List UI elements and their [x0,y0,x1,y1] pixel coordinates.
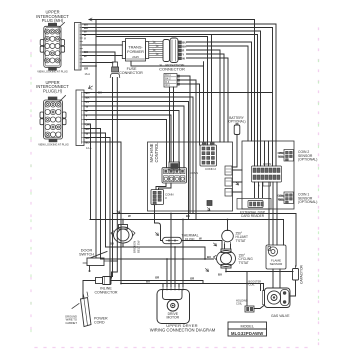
wire J2 pin11 drop [84,138,110,284]
svg-text:CORD: CORD [94,321,105,325]
broken belt switch (round) [111,225,135,244]
svg-text:T'STAT: T'STAT [236,239,246,243]
svg-text:RED: RED [278,197,284,201]
label 9-position connector [159,62,185,71]
wire flame sensor to gas valve a [272,269,274,288]
connector P2 pins [45,102,61,137]
label upper interconnect plug (MH) [36,10,69,23]
scan artifact dotted row bottom [35,347,310,349]
thermal fuse label [181,234,198,242]
model text [231,325,263,336]
wire 9-pos pin4 right [187,54,225,142]
pointer arrow to plug LH [60,96,66,102]
scan artifact dotted column right [318,28,320,345]
wire motor feed riser a [166,259,168,284]
svg-text:VIEW LOOKING AT PLUG: VIEW LOOKING AT PLUG [37,70,68,74]
svg-text:V: V [86,114,88,118]
svg-text:COIL: COIL [249,283,256,287]
label coin 1 sensor [298,193,317,205]
holding coil label [236,299,248,306]
test point arrow near hi-limit [214,243,217,246]
svg-text:MODEL: MODEL [240,325,254,329]
drive motor pins [163,287,183,291]
svg-text:CABINET: CABINET [65,321,77,325]
svg-text:SWITCH: SWITCH [79,253,94,257]
external display card reader block [237,199,271,210]
fuse connector label [119,67,143,75]
svg-text:T'STAT: T'STAT [239,261,249,265]
svg-text:BR: BR [86,127,90,131]
svg-text:Y: Y [86,118,88,122]
coin 1 wire labels [277,193,283,201]
transformer T1 [122,39,148,62]
wire rail y247 [106,247,206,259]
wire CONN2 feed a [203,62,205,145]
svg-text:R: R [86,109,88,113]
arrow at bus J2 top [89,86,93,90]
coin strip pins [253,168,280,180]
svg-text:GY: GY [86,100,90,104]
cycling thermostat label [239,254,254,265]
wire bus J1 to transformer primary lower [83,55,123,57]
wire J2 pin7 to CONN1 [84,120,167,168]
svg-text:1: 1 [190,175,192,179]
wire flame sensor feeds below box [269,209,277,245]
svg-text:12-A: 12-A [86,146,92,150]
connector U2 pin squares [179,41,182,60]
wire gas valve feeds [261,284,264,291]
svg-text:WIRING CONNECTION DIAGRAM: WIRING CONNECTION DIAGRAM [150,328,216,333]
wire bus J1 to fuse connector top [83,52,116,62]
booster coil label [249,280,262,287]
svg-text:BU: BU [218,273,222,277]
coin strip sub-block [263,182,271,186]
connector coin 2 [284,150,294,162]
capacitor label (vertical) [300,264,304,284]
svg-text:GRN: GRN [277,193,283,197]
wire flame sensor to gas valve b [279,269,281,288]
connector CONN2 on machine control (top right) [200,142,217,166]
legend block text [165,74,171,87]
svg-text:BU: BU [86,141,90,145]
wire belt switch top [122,220,124,225]
wire long vertical to door switch [95,20,97,259]
wire legend right pin c [180,84,200,145]
wire top horizontal to CONN2 [96,37,208,146]
ground wire note [65,315,77,325]
svg-text:W-4: W-4 [165,84,170,87]
connector CONN3 on machine control (bottom left) [151,190,164,205]
svg-text:BELT SW: BELT SW [136,240,140,253]
cable bundle transformer to 9-position connector [149,41,163,58]
wire bus J1 pin1 to coin box top [83,24,277,141]
CONN3 pin squares [153,191,161,205]
battery B1 body [234,124,240,135]
wire J2 pin5 to CONN1 [84,111,179,168]
svg-text:CONTROL: CONTROL [154,142,159,163]
wire long horizontal rail y219.5 [90,219,284,221]
flame sensor box [266,245,286,269]
svg-text:BU: BU [146,280,150,284]
svg-text:COIL: COIL [236,302,243,306]
wire CONN3 drop to thermal fuse [155,205,163,241]
power cord label [94,317,108,325]
svg-text:16-A: 16-A [85,72,91,76]
scan artifact green dots right [318,60,320,340]
pointer arrow to plug MH [59,23,65,29]
svg-text:BK: BK [86,136,90,140]
wire coin1 stubs [279,196,284,200]
wire cycling bottom drop [226,268,293,272]
connector coin 1 [284,192,294,204]
inline connector [96,277,112,285]
svg-text:BU: BU [207,255,211,259]
wire J2 pin9 long left drop [84,129,101,260]
wire J2 pin3 through board [84,102,189,220]
wire 9-pos pin1 right [187,42,252,141]
cycling thermostat [214,249,236,268]
capacitor C1 [293,266,299,280]
wire rail y213.5 [113,213,297,215]
svg-text:GAS VALVE: GAS VALVE [271,314,290,318]
wire labels at U2 [182,41,186,61]
broken belt switch vertical label [133,240,141,253]
svg-text:(OPTIONAL): (OPTIONAL) [298,158,317,162]
svg-text:CONN 2: CONN 2 [205,167,216,171]
wire fuse connector down leg B [112,78,118,279]
label machine control [149,142,159,163]
connector P1 pins [45,29,60,63]
svg-text:W: W [182,57,185,61]
svg-text:CAPACITOR: CAPACITOR [300,264,304,284]
title upper dryer [150,323,216,333]
svg-text:CONNECTOR: CONNECTOR [94,290,117,294]
svg-text:BU: BU [110,242,114,246]
svg-text:OR: OR [86,123,90,127]
wire fuse connector down leg A [111,78,113,277]
power cord [81,292,92,327]
wire legend pin b to CONN1 header [173,87,175,162]
wire legend right pin to board [180,76,191,214]
svg-text:W: W [86,132,89,136]
connector P2 upper interconnect plug LH [40,97,66,143]
wire legend pin a to CONN1 header [169,87,171,162]
connector J1 upper harness header (top bus) [75,23,83,71]
thermal fuse TF1 [163,237,182,243]
wire terminal to valve [254,305,265,309]
wire drop to gas valve coils [246,272,248,307]
label upper interconnect plug (LH) [36,80,69,93]
wire labels at J2 [86,91,90,145]
wire inline connector left loop to power cord [83,281,96,299]
svg-text:FORMER: FORMER [127,49,144,54]
svg-text:PLUG (MH): PLUG (MH) [42,18,64,23]
svg-text:BK: BK [86,96,90,100]
wire motor pin risers [163,284,183,287]
wire motor feed riser c [174,247,176,284]
wire coin2 stubs [279,153,284,157]
svg-text:BU: BU [98,91,102,95]
svg-text:MOTOR: MOTOR [167,316,180,320]
ground arrow [72,304,79,309]
hi-limit thermostat [222,230,234,244]
wire bus J1 pin3 to coin box top [83,31,261,141]
wire J2 pin8 drop to rail [84,124,91,220]
coin strip label [258,162,271,188]
svg-text:CONNECTOR: CONNECTOR [159,67,185,72]
gas valve label [271,314,290,318]
svg-text:OR: OR [190,277,194,281]
wire hi-limit to cycling [225,245,231,250]
CONN3 label [165,193,174,201]
wire 9-pos pin2 right [187,46,249,141]
svg-text:(OPTIONAL): (OPTIONAL) [298,200,317,204]
wire belt switch bottom [122,243,124,247]
svg-text:CARD READER: CARD READER [241,214,265,218]
wire labels at J1 [84,23,88,71]
coin sensor interface box [242,141,294,209]
svg-text:SENSOR: SENSOR [270,262,284,266]
transformer T1 label [127,45,144,60]
gas valve coil terminal block [245,306,254,312]
svg-text:PLUG(LH): PLUG(LH) [43,88,63,93]
small aux connector with test arrow [207,201,212,211]
wire J2 pin4 to CONN1 right [84,106,184,168]
wire legend right pin to board b [180,80,197,220]
connector J2 lower harness header (bottom bus) [76,90,84,146]
svg-text:OR: OR [155,276,159,280]
wire bus J1 to transformer primary upper [83,44,123,46]
wire motor rail y283.5 [121,283,264,285]
connector stack on machine control right edge [225,166,232,196]
wire rail drop to flame sensor box [283,220,285,246]
legend block below 9-position connector [164,74,180,88]
svg-text:CONN: CONN [263,162,271,166]
connector P1 upper interconnect plug MH [40,23,64,71]
wire bus J1 pin stub to door column [83,65,97,67]
svg-text:3: 3 [165,196,167,200]
label coin 2 sensor [298,150,317,162]
test point arrow at rail1 [117,211,120,214]
wire bus J1 pin2 to coin box top [83,28,273,142]
flame sensor label [270,259,284,267]
wire rail drop to capacitor [295,214,298,267]
bus ampere label A [85,72,92,150]
wire transformer secondary drop [131,61,204,66]
svg-text:W: W [199,237,202,241]
wire CONN2 feed b [211,35,213,146]
caption view looking at plug LH [38,143,69,147]
scan artifact green dots left [30,55,32,335]
svg-text:VIEW LOOKING AT PLUG: VIEW LOOKING AT PLUG [38,143,69,147]
scan artifact dotted column left [30,40,32,340]
svg-text:W: W [86,105,89,109]
wire motor feed riser d [182,220,184,284]
svg-text:(OPTIONAL): (OPTIONAL) [227,120,245,124]
wire bus J1 pin4 to coin box top [83,35,258,142]
svg-text:W: W [84,54,87,58]
CONN2 pin squares [202,147,214,164]
door switch S1 [83,252,110,273]
svg-text:CONNECTOR: CONNECTOR [119,71,143,75]
fuse connector F1 [110,62,119,78]
wire door switch to fuse leg [110,260,117,262]
wire J2 pin12 drop [84,142,121,284]
svg-text:V: V [84,37,86,41]
coin 2 wire labels [277,151,283,159]
wire coin box internal risers [255,141,277,166]
gas valve assembly [263,288,291,308]
svg-text:BU: BU [86,91,90,95]
wire top run with arrow to door switch column [89,20,255,142]
drive motor M1 [157,290,190,324]
CONN1 label [190,171,199,179]
wire coin strip to flame sensor feeds [269,182,277,209]
wire 9-pos pin3 right [187,50,221,142]
hi-limit thermostat label [236,232,248,243]
door switch label [79,249,94,257]
wire rail y259 [101,258,214,260]
wire J2 pin6 to CONN1 [84,115,171,162]
svg-text:2A25: 2A25 [132,55,139,59]
label external disp card reader [240,210,265,218]
svg-text:GRN: GRN [277,151,283,155]
model box [228,322,267,336]
CONN2 label [205,167,216,171]
connector coin strip (2-row header) [252,166,282,182]
connector U2 9-position connector body [163,38,178,63]
connector CONN1 on machine control (center) [162,162,187,183]
wire CONN1 bottom to CONN3 loop [156,183,171,190]
wire J2 pin2 through board [84,97,193,214]
wire bus J1 pin stub to fuse leg [83,62,113,64]
svg-text:4: 4 [258,184,260,188]
test point arrow near motor [206,269,209,272]
machine control board outline [148,142,233,211]
wire hi-limit top [227,220,229,231]
wire coin strip to card reader [255,182,263,198]
svg-text:MLG32PDAWW: MLG32PDAWW [231,331,263,336]
inline connector label [94,287,117,295]
wire battery to control board edge [232,135,237,168]
battery B1 (optional) [227,116,245,124]
test point arrow at thermal fuse [156,233,159,236]
wire thermal fuse to cycling tstat [182,241,223,250]
wire motor feed riser b [170,214,172,284]
wire capacitor to gas valve [290,280,296,296]
svg-text:BK: BK [186,214,190,218]
caption view looking at plug MH [37,70,68,74]
svg-text:FUSE: FUSE [185,237,195,241]
wire J2 pin10 drop [84,133,106,247]
wire board edge to coin box stubs [232,170,242,192]
svg-text:OR: OR [84,67,88,71]
svg-text:W: W [128,214,131,218]
scattered wire color labels [98,91,222,284]
drive motor label [167,312,180,320]
wire J2 pin1 long to right nest [84,92,273,94]
wire 9-pos pin5 right [187,58,229,142]
wire inline connector right run [111,281,203,284]
test point arrow V [236,182,239,185]
CONN1 pin squares row1 [164,169,185,182]
svg-text:RED: RED [278,154,284,158]
